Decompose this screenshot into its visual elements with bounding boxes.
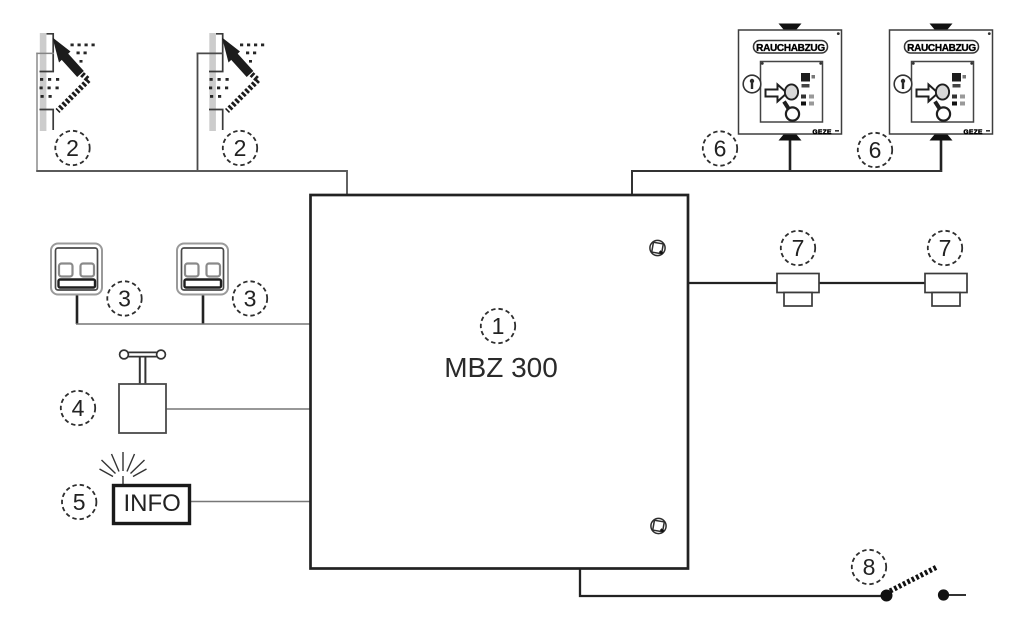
wire: window 2b stub	[197, 52, 224, 54]
label circle 1	[481, 309, 515, 343]
label circle 3b	[233, 281, 267, 315]
wire: panel to detector 7a	[688, 282, 778, 284]
label circle 5	[62, 485, 96, 519]
label circle 3a	[107, 281, 141, 315]
label circle 6a	[703, 131, 737, 165]
call point 6a	[739, 24, 842, 141]
switch 8 hatched lever	[890, 567, 938, 592]
wire: call point 6b drop	[940, 140, 943, 172]
label circle 2a	[55, 131, 89, 165]
screw top right	[650, 240, 665, 255]
wire: window 2a drop	[36, 53, 38, 171]
svg-text:7: 7	[939, 235, 952, 261]
smoke vent window 2a	[40, 33, 95, 131]
wire: switch 8 stub	[949, 594, 966, 596]
label circle 6b	[858, 133, 892, 167]
svg-text:2: 2	[234, 135, 247, 161]
svg-text:MBZ 300: MBZ 300	[444, 352, 558, 383]
wire: window 2b drop	[197, 53, 199, 172]
smoke detector 7a	[777, 274, 819, 307]
wire: switch 3a drop	[76, 295, 79, 324]
wire: info 5 to panel	[189, 501, 311, 503]
wire: switch bus to panel	[76, 323, 311, 325]
label circle 7a	[781, 231, 815, 265]
label circle 8	[852, 550, 886, 584]
svg-text:5: 5	[73, 489, 86, 515]
svg-text:6: 6	[869, 137, 882, 163]
smoke vent window 2b	[209, 33, 264, 131]
svg-text:3: 3	[118, 286, 131, 312]
vent switch 3b	[177, 244, 228, 295]
wire: call point 6a drop	[789, 140, 792, 171]
smoke detector 7b	[925, 274, 967, 307]
wire: detector 7a to detector 7b	[818, 282, 926, 284]
label circle 4	[61, 391, 95, 425]
svg-text:2: 2	[66, 135, 79, 161]
wire: left bus to panel	[36, 171, 347, 195]
svg-text:6: 6	[714, 136, 727, 162]
wire: panel bottom to switch 8	[580, 568, 886, 596]
svg-text:7: 7	[792, 235, 805, 261]
wind/rain sensor 4	[119, 350, 166, 433]
wire: sensor 4 to panel	[166, 408, 311, 410]
wire: right bus to panel	[632, 171, 942, 195]
info device 5 box	[114, 486, 190, 524]
svg-text:1: 1	[492, 313, 505, 339]
label circle 2b	[223, 131, 257, 165]
screw bottom right	[651, 518, 666, 533]
svg-text:3: 3	[244, 286, 257, 312]
svg-text:INFO: INFO	[124, 490, 181, 517]
switch 8 contact dot left	[881, 590, 893, 602]
wire: switch 3b drop	[202, 295, 205, 324]
svg-text:8: 8	[863, 554, 876, 580]
vent switch 3a	[51, 244, 102, 295]
svg-text:4: 4	[72, 395, 85, 421]
switch 8 contact dot right	[938, 589, 949, 600]
label circle 7b	[928, 231, 962, 265]
MBZ 300 panel box	[311, 195, 689, 569]
info device 5 rays	[100, 452, 147, 486]
call point 6b	[890, 24, 993, 141]
wire: window 2a stub	[36, 52, 54, 54]
